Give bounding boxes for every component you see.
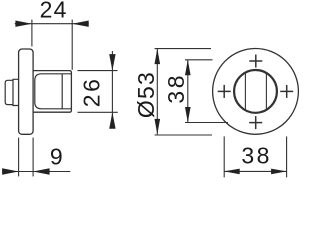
arrowhead 9 right (outside, pointing left) xyxy=(33,168,50,174)
rosette disc (side view) xyxy=(19,49,33,134)
dimension O53: dimension line xyxy=(156,49,158,135)
rosette outer circle front view xyxy=(213,49,299,135)
thumbturn grip silhouette (side view) xyxy=(35,74,62,109)
dimension 38 vertical: bottom extension line xyxy=(185,122,228,124)
dimension 38 horizontal: right extension line xyxy=(286,136,288,177)
dimension 38 vertical: dimension line xyxy=(187,60,189,123)
dimension O53: bottom extension line xyxy=(155,134,212,136)
thumbturn knob outer outline (side view) xyxy=(33,71,71,113)
arrowhead 38v top (inside, pointing up) xyxy=(185,60,191,76)
dimension 26: top extension line xyxy=(78,70,118,72)
arrowhead O53 top (inside, pointing up) xyxy=(155,49,161,65)
arrowhead 9 left (outside, pointing right) xyxy=(2,168,19,174)
grip bar left edge chord xyxy=(244,73,246,110)
dimension 9: left extension line xyxy=(18,138,20,177)
arrowhead 26 top (outside, pointing down) xyxy=(109,54,115,71)
thumbturn boss inner circle front view xyxy=(234,70,277,113)
svg-text:26: 26 xyxy=(78,77,104,108)
dimension O53: top extension line xyxy=(155,48,211,50)
spindle hub tab (side view) xyxy=(13,79,19,105)
grip bottom face line xyxy=(62,108,71,110)
svg-text:Ø53: Ø53 xyxy=(133,71,159,118)
dimension 26: dimension line xyxy=(111,51,113,126)
screw hole centre mark left xyxy=(218,85,231,98)
dimension 26: bottom extension line xyxy=(78,111,118,113)
grip bar right edge chord xyxy=(265,73,267,110)
svg-text:38: 38 xyxy=(163,73,189,104)
arrowhead 24 left (outside, pointing right) xyxy=(15,21,32,27)
dimension 24: dimension line xyxy=(15,23,89,25)
svg-text:9: 9 xyxy=(50,144,64,170)
dimension 24: right extension line xyxy=(71,20,73,70)
arrowhead 38h right (inside, pointing right) xyxy=(271,169,287,175)
screw hole centre mark top xyxy=(249,55,262,68)
spindle hub nose xyxy=(5,80,13,104)
dimension 9: dimension line xyxy=(3,171,71,173)
arrowhead 26 bottom (outside, pointing up) xyxy=(109,112,115,129)
dimension 38 horizontal: dimension line xyxy=(224,170,286,172)
dimension 38 horizontal: left extension line xyxy=(223,136,225,177)
dimension 9: right extension line xyxy=(32,138,34,177)
svg-text:38: 38 xyxy=(241,143,272,169)
grip top face line xyxy=(62,73,71,75)
arrowhead O53 bottom (inside, pointing down) xyxy=(155,119,161,134)
svg-text:24: 24 xyxy=(40,0,68,23)
screw hole centre mark right xyxy=(280,85,293,98)
dimension 38 vertical: top extension line xyxy=(185,59,213,61)
screw hole centre mark bottom xyxy=(249,116,262,129)
dimension 24: left extension line xyxy=(31,20,33,47)
arrowhead 24 right (outside, pointing left) xyxy=(72,21,89,27)
arrowhead 38v bottom (inside, pointing down) xyxy=(185,107,191,123)
arrowhead 38h left (inside, pointing left) xyxy=(224,169,240,175)
